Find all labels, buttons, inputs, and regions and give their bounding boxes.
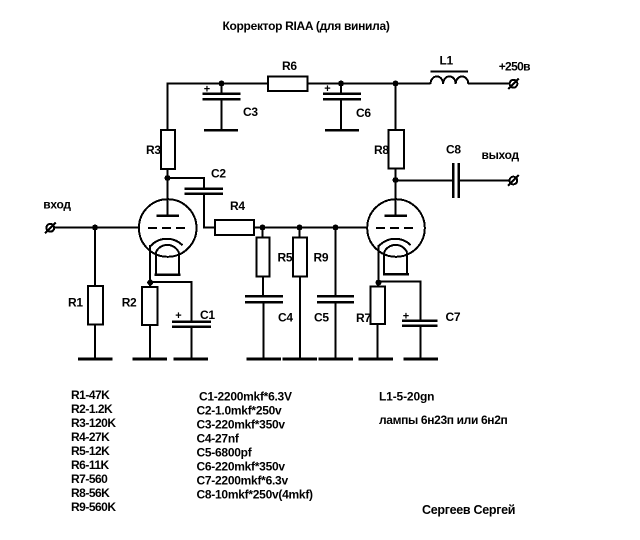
- svg-text:лампы 6н23п или 6н2п: лампы 6н23п или 6н2п: [379, 413, 508, 427]
- svg-text:R8: R8: [374, 143, 389, 157]
- svg-text:C4-27nf: C4-27nf: [197, 432, 240, 446]
- svg-text:R1: R1: [68, 296, 83, 310]
- svg-text:R9-560K: R9-560K: [71, 500, 116, 514]
- svg-text:Сергеев Сергей: Сергеев Сергей: [422, 503, 515, 517]
- svg-text:+: +: [403, 310, 409, 322]
- svg-text:C2: C2: [211, 167, 226, 181]
- svg-text:R7: R7: [356, 311, 371, 325]
- svg-text:C4: C4: [278, 311, 293, 325]
- svg-text:R6-11K: R6-11K: [71, 458, 110, 472]
- svg-text:C6-220mkf*350v: C6-220mkf*350v: [197, 460, 286, 474]
- svg-text:C5: C5: [314, 311, 329, 325]
- svg-text:+: +: [175, 310, 181, 322]
- svg-text:выход: выход: [482, 148, 520, 162]
- svg-text:R5-12K: R5-12K: [71, 444, 110, 458]
- svg-text:C2-1.0mkf*250v: C2-1.0mkf*250v: [197, 404, 283, 418]
- svg-text:R4: R4: [230, 199, 245, 213]
- svg-text:+250в: +250в: [499, 59, 530, 73]
- svg-text:R3: R3: [146, 143, 161, 157]
- svg-text:R9: R9: [314, 250, 329, 264]
- svg-text:C5-6800pf: C5-6800pf: [197, 446, 253, 460]
- svg-text:R2: R2: [122, 296, 137, 310]
- svg-text:C1-2200mkf*6.3V: C1-2200mkf*6.3V: [199, 390, 292, 404]
- svg-text:вход: вход: [43, 198, 71, 212]
- svg-text:C3: C3: [243, 105, 258, 119]
- svg-text:L1-5-20gn: L1-5-20gn: [379, 390, 434, 404]
- svg-text:C8-10mkf*250v(4mkf): C8-10mkf*250v(4mkf): [197, 488, 314, 502]
- svg-text:R5: R5: [278, 250, 293, 264]
- svg-text:R8-56K: R8-56K: [71, 486, 110, 500]
- svg-text:L1: L1: [440, 54, 454, 68]
- svg-text:R3-120K: R3-120K: [71, 416, 116, 430]
- svg-text:C3-220mkf*350v: C3-220mkf*350v: [197, 418, 286, 432]
- svg-text:+: +: [204, 83, 210, 95]
- svg-text:C7-2200mkf*6.3v: C7-2200mkf*6.3v: [197, 474, 289, 488]
- svg-text:C8: C8: [446, 142, 461, 156]
- svg-text:R7-560: R7-560: [71, 472, 108, 486]
- svg-text:Корректор RIAA (для винила): Корректор RIAA (для винила): [222, 19, 389, 33]
- svg-text:+: +: [324, 83, 330, 95]
- svg-text:R4-27K: R4-27K: [71, 430, 110, 444]
- svg-text:C6: C6: [356, 106, 371, 120]
- svg-text:C7: C7: [446, 310, 461, 324]
- svg-text:R1-47K: R1-47K: [71, 388, 110, 402]
- svg-text:R6: R6: [282, 59, 297, 73]
- svg-text:C1: C1: [200, 308, 215, 322]
- svg-text:R2-1.2K: R2-1.2K: [71, 402, 113, 416]
